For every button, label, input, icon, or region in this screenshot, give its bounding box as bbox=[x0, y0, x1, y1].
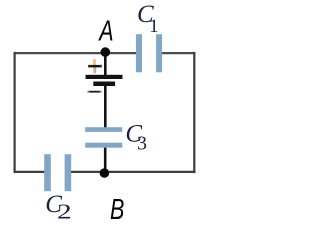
node A junction dot bbox=[101, 47, 111, 57]
svg-text:1: 1 bbox=[149, 16, 159, 37]
wire left side bbox=[14, 52, 16, 173]
wire top-left segment bbox=[14, 52, 140, 54]
wire bottom-right segment bbox=[68, 171, 196, 173]
label node B bbox=[110, 194, 124, 226]
battery V short plate bbox=[93, 82, 115, 87]
label C1 bbox=[137, 1, 159, 37]
wire node A to battery bbox=[104, 52, 107, 77]
capacitor C3 plates bbox=[85, 127, 122, 148]
svg-text:3: 3 bbox=[137, 133, 147, 155]
battery + sign bbox=[88, 59, 102, 73]
svg-text:A: A bbox=[98, 15, 114, 47]
wire bottom-left segment bbox=[14, 171, 49, 173]
label C2 bbox=[45, 191, 71, 223]
wire top-right segment bbox=[159, 52, 195, 54]
node B junction dot bbox=[100, 168, 110, 178]
capacitor C1 plates bbox=[136, 34, 162, 72]
capacitor C2 plates bbox=[44, 154, 71, 191]
wire right side bbox=[193, 52, 195, 173]
battery - sign bbox=[88, 91, 102, 93]
svg-text:B: B bbox=[110, 194, 124, 226]
svg-text:2: 2 bbox=[57, 199, 72, 223]
wire battery to C3 bbox=[104, 85, 107, 129]
label C3 bbox=[125, 121, 147, 155]
wire C3 to node B bbox=[104, 146, 107, 173]
battery V long plate bbox=[86, 75, 123, 79]
label node A bbox=[98, 15, 114, 47]
